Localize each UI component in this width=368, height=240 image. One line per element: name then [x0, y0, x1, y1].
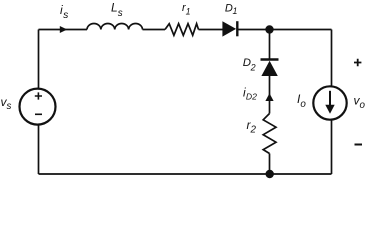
svg-text:D1: D1: [225, 3, 238, 16]
svg-text:D2: D2: [243, 57, 256, 72]
svg-text:Io: Io: [297, 92, 306, 110]
svg-text:vs: vs: [1, 95, 12, 112]
svg-text:Ls: Ls: [111, 1, 123, 19]
svg-text:vo: vo: [354, 94, 366, 111]
svg-text:is: is: [60, 3, 68, 21]
svg-text:r1: r1: [182, 2, 191, 16]
svg-text:r2: r2: [247, 118, 257, 136]
svg-text:iD2: iD2: [243, 86, 257, 102]
